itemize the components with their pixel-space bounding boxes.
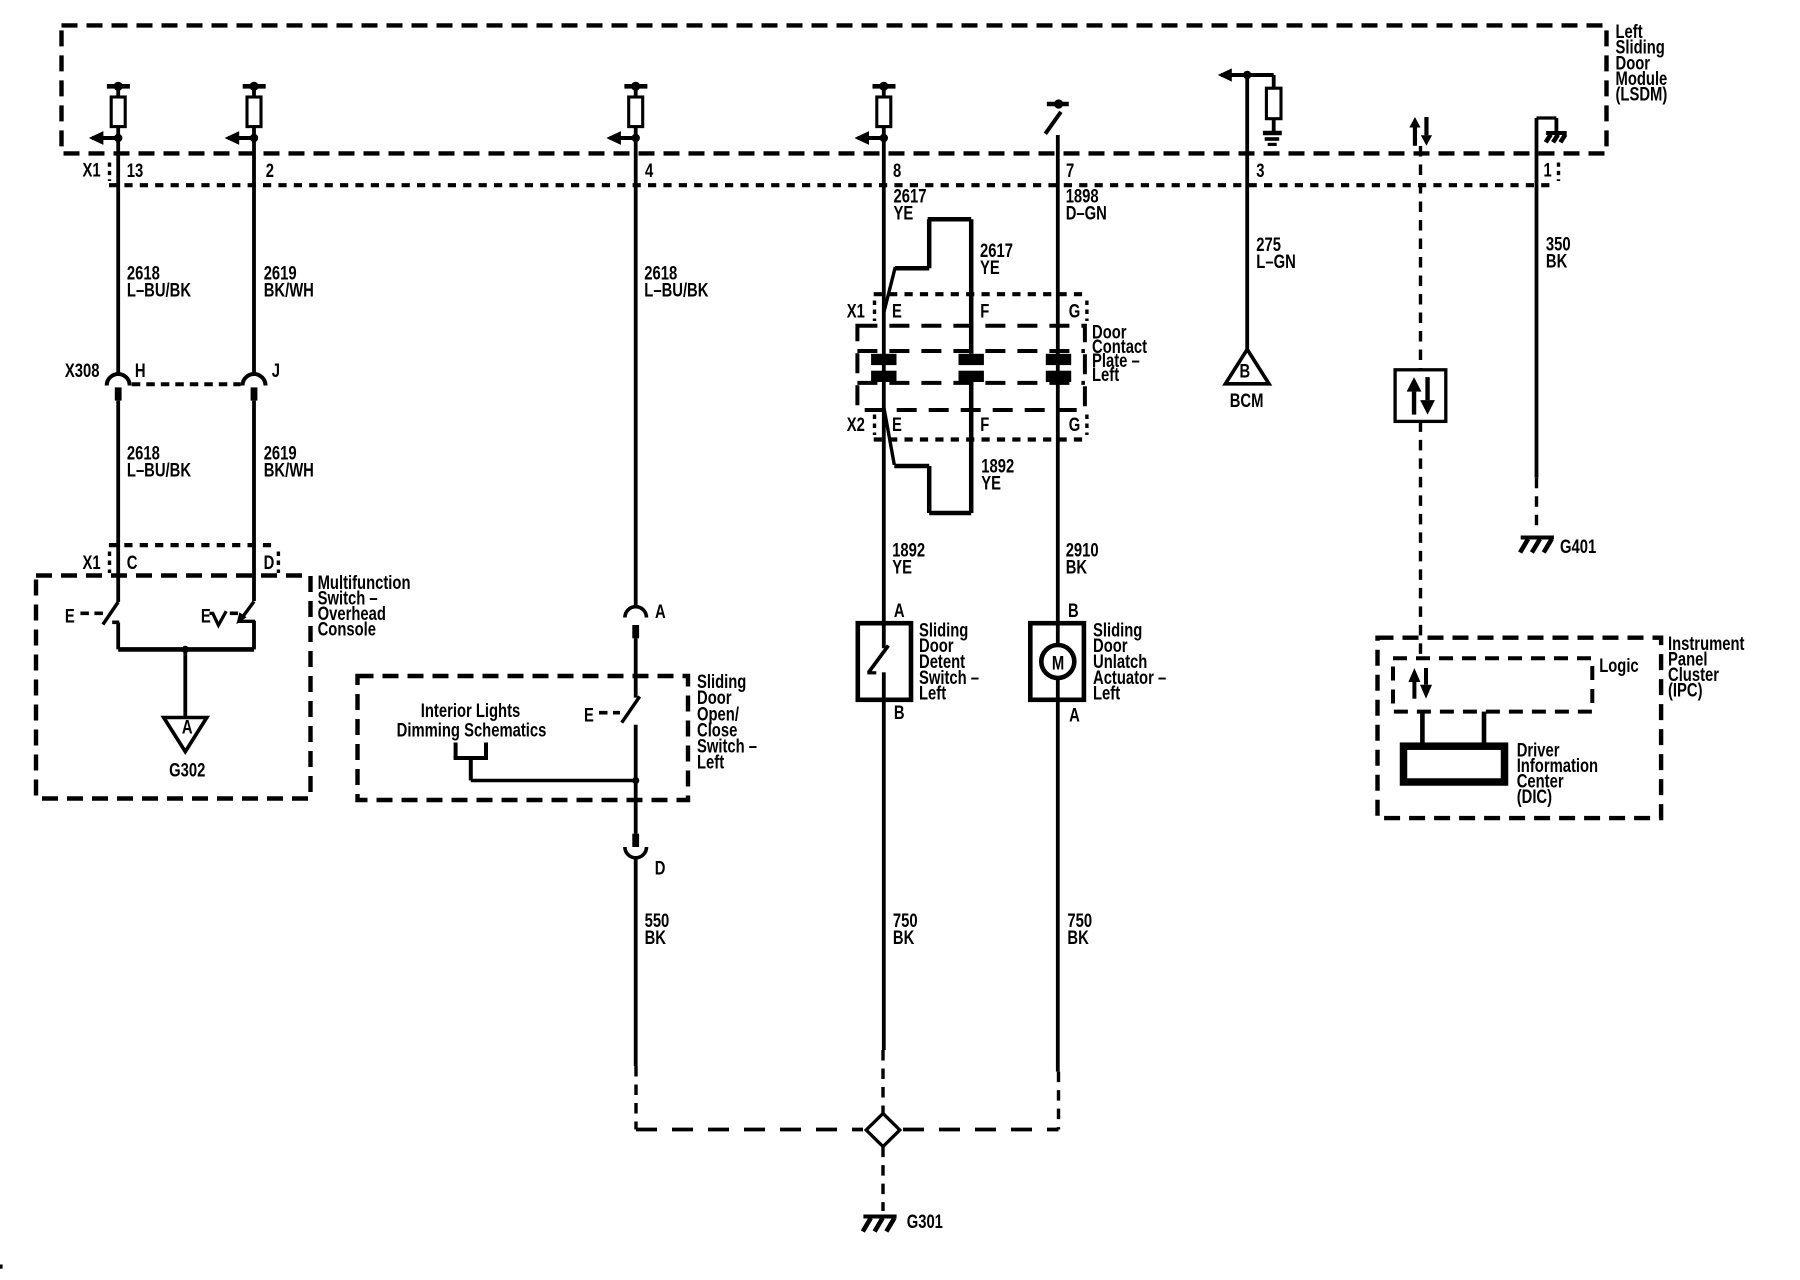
svg-text:D: D [655,858,666,879]
svg-text:13: 13 [127,160,143,181]
svg-text:BK/WH: BK/WH [264,460,314,481]
svg-text:M: M [1052,653,1064,674]
svg-text:YE: YE [894,203,914,224]
svg-text:G: G [1069,414,1081,435]
svg-text:Console: Console [318,619,376,640]
svg-text:2: 2 [266,160,274,181]
svg-text:BCM: BCM [1230,390,1264,411]
svg-text:A: A [894,600,905,621]
svg-text:D: D [264,552,275,573]
svg-text:A: A [655,601,666,622]
svg-text:Dimming Schematics: Dimming Schematics [397,720,547,741]
svg-text:(LSDM): (LSDM) [1616,84,1668,105]
svg-text:Interior Lights: Interior Lights [421,700,520,721]
svg-text:Left: Left [1093,683,1120,704]
svg-text:3: 3 [1256,160,1264,181]
svg-text:BK: BK [1066,557,1088,578]
svg-text:A: A [1069,705,1080,726]
svg-text:G302: G302 [169,760,205,781]
svg-text:4: 4 [645,160,654,181]
svg-text:BK/WH: BK/WH [264,280,314,301]
svg-text:X1: X1 [847,301,865,322]
svg-text:G301: G301 [907,1211,943,1232]
svg-text:G: G [1069,301,1081,322]
svg-text:E: E [892,301,902,322]
svg-text:F: F [980,301,989,322]
svg-text:YE: YE [980,257,1000,278]
svg-text:BK: BK [893,927,915,948]
svg-text:A: A [182,717,193,738]
svg-text:E: E [892,414,902,435]
svg-text:B: B [1240,361,1251,382]
svg-text:X2: X2 [847,414,865,435]
svg-text:X1: X1 [83,552,101,573]
svg-text:YE: YE [981,473,1001,494]
svg-text:L–BU/BK: L–BU/BK [127,460,192,481]
svg-text:E: E [201,606,211,627]
svg-text:F: F [980,414,989,435]
svg-text:E: E [584,705,594,726]
svg-text:X1: X1 [83,160,101,181]
svg-text:Left: Left [697,752,724,773]
svg-text:(DIC): (DIC) [1517,786,1552,807]
svg-text:X308: X308 [65,360,100,381]
svg-text:C: C [127,552,138,573]
svg-text:BK: BK [1067,927,1089,948]
svg-text:B: B [1068,600,1079,621]
svg-text:Left: Left [1092,364,1119,385]
svg-text:BK: BK [645,927,667,948]
svg-text:L–BU/BK: L–BU/BK [127,280,192,301]
svg-text:Left: Left [919,683,946,704]
svg-text:(IPC): (IPC) [1668,680,1703,701]
svg-text:G401: G401 [1560,536,1596,557]
svg-text:8: 8 [893,160,901,181]
svg-text:YE: YE [892,557,912,578]
svg-text:BK: BK [1546,251,1568,272]
svg-text:Logic: Logic [1599,655,1638,676]
svg-text:B: B [894,702,905,723]
svg-text:L–GN: L–GN [1256,251,1295,272]
svg-text:J: J [272,360,280,381]
svg-text:7: 7 [1066,160,1074,181]
svg-text:E: E [65,606,75,627]
svg-text:D–GN: D–GN [1066,203,1107,224]
svg-text:H: H [135,360,146,381]
svg-text:L–BU/BK: L–BU/BK [644,280,709,301]
svg-text:1: 1 [1544,160,1552,181]
